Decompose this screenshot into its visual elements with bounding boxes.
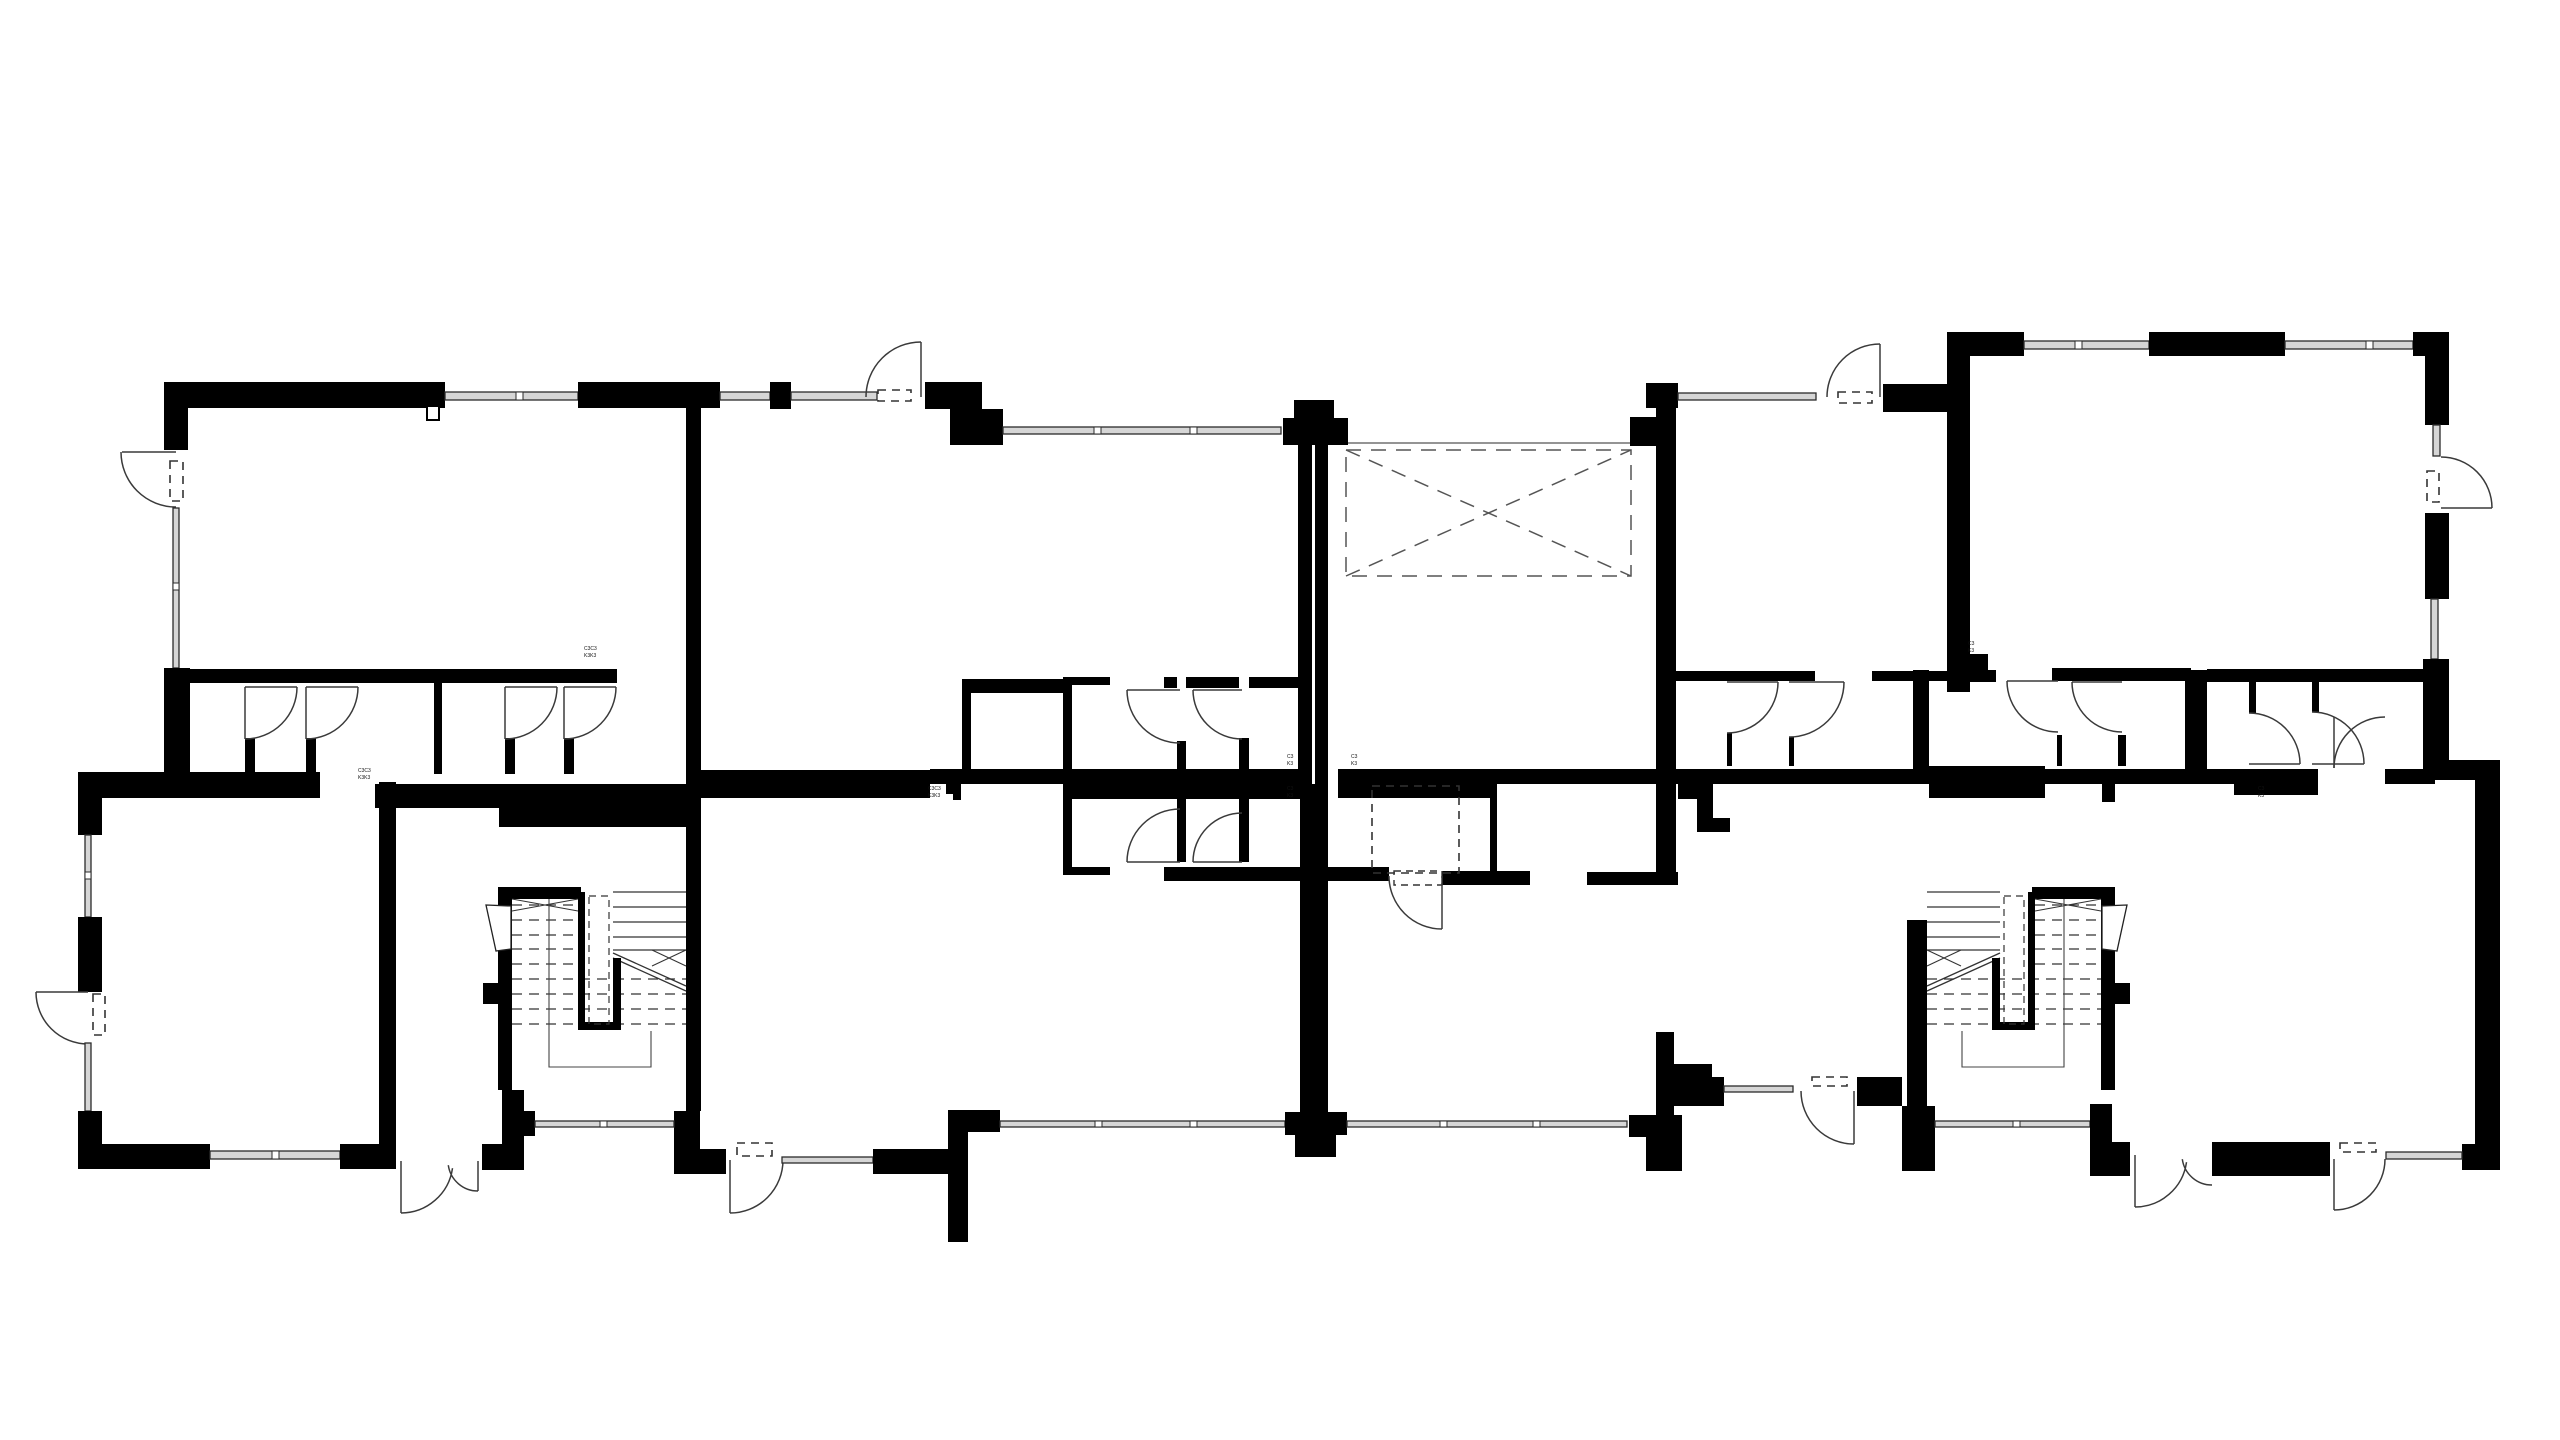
partition boxroom — [1490, 784, 1497, 873]
closet jamb 4 — [564, 738, 574, 774]
wall mid right 4 — [2385, 769, 2435, 784]
svg-text:C3: C3 — [2258, 786, 2265, 792]
wall TR right a — [2425, 332, 2449, 425]
wall lowleft corner — [78, 1111, 102, 1169]
band jamb 2 — [1789, 737, 1794, 766]
wall central solid — [1300, 784, 1328, 1112]
dashed box inner — [1394, 871, 1442, 885]
wc leaf 1 — [1127, 689, 1180, 691]
door leaf bottom-mid — [729, 1160, 731, 1213]
wall below X-room — [1587, 872, 1678, 885]
svg-text:C3: C3 — [1351, 754, 1358, 760]
stair right core E — [2028, 892, 2035, 1030]
wc door 4 — [1193, 813, 1242, 862]
band leaf 2 — [1789, 681, 1844, 683]
wall bottom-left 2 — [340, 1144, 396, 1169]
window bottom long-1 — [1000, 1121, 1285, 1127]
wall step 2102 — [2102, 782, 2115, 802]
dashed door topmid — [1838, 392, 1872, 403]
wall TR top 2 — [2149, 332, 2285, 356]
text mid gap — [358, 768, 371, 781]
wall mid band bottom — [1164, 867, 1389, 881]
band door 1 — [1727, 682, 1778, 733]
wall br L b — [2090, 1142, 2130, 1176]
text TR section — [1968, 641, 1975, 654]
wall TR top 3 — [2413, 332, 2449, 356]
window topright long — [1678, 393, 1816, 400]
wall band vert 2185 — [2185, 670, 2207, 782]
wall mid-center thin — [930, 769, 1063, 784]
stair left core W — [578, 892, 585, 1030]
wall vertical main-left — [686, 408, 701, 1111]
stub below mid wall — [946, 784, 961, 800]
text wc d — [1351, 786, 1364, 799]
wall arm bottom — [700, 1149, 726, 1174]
door arc top-mid — [866, 342, 921, 397]
wc leaf 4 — [1193, 861, 1242, 863]
window bottom right-2 — [2386, 1152, 2462, 1159]
wall block bottom-left of vert — [674, 1111, 700, 1174]
door leaf br-1 — [1853, 1091, 1855, 1144]
door arc br2 R — [2182, 1159, 2212, 1185]
band leaf 4 — [2072, 681, 2122, 683]
band jamb 6 — [2312, 682, 2319, 712]
wall br block1 — [1857, 1077, 1902, 1106]
door arc lowleft — [36, 992, 88, 1044]
wall br bar — [2212, 1142, 2330, 1176]
wall mid right 3 — [1678, 769, 2318, 784]
wall central cap wide — [1283, 418, 1348, 445]
wall jog right c — [1697, 818, 1730, 832]
door arc left-top — [121, 452, 176, 507]
wall jog right b — [1697, 798, 1713, 832]
closet door 3 — [505, 687, 557, 739]
wall T right foot a — [1629, 1115, 1656, 1137]
wall T right mid a — [1656, 1032, 1674, 1117]
window top-4 long — [1003, 427, 1281, 434]
wall annex top arm — [2449, 760, 2500, 780]
window bottom-left — [210, 1151, 340, 1159]
wall bottom-mid — [873, 1149, 948, 1174]
closet leaf 3 — [504, 687, 506, 739]
svg-text:C3C3: C3C3 — [584, 646, 597, 652]
wall top C — [925, 382, 982, 409]
stair left top wall — [512, 887, 581, 899]
svg-text:C3C3: C3C3 — [928, 786, 941, 792]
stair left break line — [613, 953, 686, 991]
wall mid right 1 — [1338, 769, 1490, 798]
wall C vert — [1063, 677, 1072, 875]
wall mid-left 2 — [375, 784, 686, 808]
wall mid-left 1 — [78, 772, 320, 798]
band leaf 7 — [2333, 717, 2335, 768]
wc door 1 — [1127, 690, 1180, 743]
wall TR left — [1947, 332, 1970, 692]
wall left corner — [164, 668, 190, 774]
wall TR right c — [2423, 659, 2449, 780]
stair left core dashed — [589, 896, 609, 1024]
wall central cross — [1285, 1112, 1347, 1135]
wall top-left B — [578, 382, 720, 408]
band leaf 1 — [1727, 681, 1778, 683]
wall top-left A — [164, 382, 445, 408]
text wc c — [1287, 786, 1294, 799]
svg-text:K3: K3 — [1287, 793, 1293, 799]
window TR right 1 — [2433, 425, 2440, 456]
wall bottom T arm — [968, 1110, 1000, 1132]
door leaf boxroom — [1441, 876, 1443, 929]
text wc b — [1351, 754, 1358, 767]
dashed door left — [170, 461, 183, 501]
closet jamb 2 — [306, 738, 316, 774]
wall lowleft left2 — [78, 917, 102, 992]
wall rightstair left — [1907, 920, 1927, 1106]
dashed box room — [1372, 786, 1459, 873]
wall band junction blk — [1970, 654, 1988, 670]
closet door 2 — [306, 687, 358, 739]
wall br L a — [2090, 1104, 2112, 1142]
wall mid-left 3 — [686, 770, 930, 798]
window TR 2 — [2285, 341, 2413, 349]
window bottom mid-left — [535, 1121, 674, 1127]
window top-2 — [720, 392, 770, 400]
line top of X room — [1348, 442, 1646, 444]
band door 5 — [2249, 713, 2300, 764]
wall entrance corner — [505, 1111, 535, 1136]
stair right top wall — [2032, 887, 2101, 899]
wall central strip W — [1298, 445, 1312, 784]
svg-text:C3: C3 — [1287, 754, 1294, 760]
wall central strip E — [1315, 445, 1328, 784]
wall band top r3 — [2052, 668, 2191, 681]
wall mid-center thick — [1063, 769, 1300, 799]
door arc TR right — [2441, 457, 2492, 508]
svg-text:K3K3: K3K3 — [584, 653, 596, 659]
stair right X left — [1927, 950, 1961, 966]
wall top C step — [950, 409, 1003, 445]
closet jamb 1 — [245, 738, 255, 774]
dashed door br-3 — [2340, 1143, 2376, 1152]
wall bottom-left 1 — [78, 1144, 210, 1169]
window bottom long-2 — [1347, 1121, 1627, 1127]
band jamb 5 — [2249, 682, 2256, 713]
wall jog right a — [1678, 784, 1713, 799]
closet door 4 — [564, 687, 616, 739]
door arc entrance R — [448, 1165, 478, 1191]
door leaf entrance L — [400, 1161, 402, 1213]
dashed door br-1 — [1812, 1077, 1847, 1086]
wall X-room shaft — [1656, 408, 1676, 873]
svg-text:C3: C3 — [1968, 641, 1975, 647]
wall annex foot — [2462, 1144, 2500, 1170]
stair left X right — [652, 950, 686, 966]
wall stairroom left — [379, 782, 396, 1144]
wall entrance right block — [482, 1144, 524, 1170]
stair left arrow — [486, 905, 511, 951]
door arc topmid — [1827, 344, 1880, 397]
wc jamb 1 — [1177, 741, 1186, 862]
band jamb 4 — [2118, 735, 2126, 766]
wall mid right thick — [1929, 766, 2045, 798]
stair left mid block — [483, 983, 500, 1004]
wall T right foot b — [1646, 1115, 1682, 1171]
svg-text:K3K3: K3K3 — [358, 775, 370, 781]
window bottom right-1 — [1935, 1121, 2090, 1127]
wall bottom T vert — [948, 1110, 968, 1242]
wall mid right 2 — [1490, 769, 1678, 784]
door arc bottom-mid — [730, 1160, 783, 1213]
window lowleft-2 — [85, 1043, 91, 1111]
window left tall — [173, 508, 179, 668]
stair left outline — [549, 899, 651, 1067]
window top-1 — [445, 392, 578, 400]
stair right room wall — [2101, 887, 2115, 1090]
partition 962 — [962, 679, 971, 774]
dashed X box — [1346, 450, 1631, 576]
band door 6 — [2312, 712, 2364, 764]
door arc entrance L — [401, 1168, 453, 1213]
svg-text:K3: K3 — [1287, 761, 1293, 767]
door arc br-1 — [1801, 1091, 1854, 1144]
wc door 2 — [1193, 690, 1242, 739]
wall band top r1 — [1674, 671, 1815, 681]
dashed door lowleft — [93, 994, 105, 1035]
wall band bottom left arm — [1063, 867, 1110, 875]
wall mid stair top — [499, 808, 686, 827]
closet leaf 1 — [244, 687, 246, 739]
wall br block2 — [1902, 1106, 1935, 1171]
wall band top r4 — [2207, 669, 2423, 682]
door leaf lowleft — [36, 991, 88, 993]
door arc boxroom — [1389, 876, 1442, 929]
band jamb 3 — [2057, 735, 2062, 766]
stair right mid block — [2113, 983, 2130, 1004]
wc leaf 2 — [1193, 689, 1242, 691]
wc leaf 3 — [1127, 861, 1180, 863]
wall lowleft left1 — [78, 772, 102, 835]
partition closet mid — [434, 669, 442, 774]
door leaf br2 L — [2134, 1155, 2136, 1207]
wc door 3 — [1127, 809, 1180, 862]
window top-3 — [791, 392, 877, 400]
wall X-room cap — [1646, 383, 1678, 408]
wall annex right — [2475, 780, 2500, 1144]
notch detail — [427, 406, 439, 420]
closet jamb 3 — [505, 738, 515, 774]
wall central foot — [1295, 1135, 1336, 1157]
wall entrance vert — [502, 1090, 524, 1144]
band door 2 — [1789, 682, 1844, 737]
band door 4 — [2072, 682, 2122, 732]
stair right X top — [2035, 899, 2101, 911]
window TR 1 — [2024, 341, 2149, 349]
stair left core btm — [578, 1022, 621, 1030]
stair left core E — [613, 958, 621, 1030]
band door 7 — [2334, 717, 2385, 768]
text right stub — [2258, 786, 2265, 799]
stair right treads — [1927, 892, 2101, 1024]
wall chunk 2234 — [2234, 782, 2318, 795]
door leaf left-top — [122, 451, 176, 453]
wall band junction — [1951, 670, 1996, 682]
wall TR right b — [2425, 513, 2449, 599]
wall corridor top4 — [442, 669, 617, 683]
closet door 1 — [245, 687, 297, 739]
stair right core W — [1992, 958, 2000, 1030]
wall wc top 2 — [1186, 677, 1239, 688]
svg-text:K3: K3 — [1351, 761, 1357, 767]
stair left X top — [512, 899, 578, 911]
wall mid band bottom2 — [1442, 871, 1530, 885]
window sill right — [1724, 1086, 1793, 1092]
dashed door TR — [2427, 471, 2439, 502]
wall left upper — [164, 382, 188, 450]
svg-text:K3: K3 — [1968, 648, 1974, 654]
door leaf br-3 — [2333, 1159, 2335, 1210]
post top — [770, 382, 791, 409]
wall corridor top — [188, 669, 435, 683]
wall wc top 1 — [1164, 677, 1177, 688]
band door 3 — [2007, 681, 2058, 732]
wall wc top 3 — [1249, 677, 1300, 688]
wall C top arm — [1063, 677, 1110, 685]
wall band top r2 — [1872, 671, 1951, 681]
stub below right wall — [2291, 784, 2304, 793]
dashed door bottom-mid — [737, 1143, 772, 1156]
text corridor — [584, 646, 597, 659]
stair left room wall — [498, 887, 512, 1090]
wc jamb 2 — [1239, 738, 1249, 862]
wall X-room step — [1630, 417, 1656, 446]
band jamb 1 — [1727, 733, 1732, 766]
window TR right 2 — [2431, 599, 2438, 659]
stair left treads — [512, 892, 686, 1024]
wall TR mid — [2207, 669, 2423, 682]
door arc br-3 — [2334, 1159, 2385, 1210]
band leaf 3 — [2007, 680, 2058, 682]
stair right core btm — [1992, 1022, 2035, 1030]
door leaf TR right — [2441, 507, 2492, 509]
text wc a — [1287, 754, 1294, 767]
wall TR top 1 — [1947, 332, 2024, 356]
stair right break line — [1927, 953, 2000, 991]
dashed opening top — [878, 390, 911, 401]
wall band vert 1913 — [1913, 670, 1929, 781]
svg-text:C3: C3 — [1287, 786, 1294, 792]
stair right arrow — [2102, 905, 2127, 951]
svg-text:K3: K3 — [2258, 793, 2264, 799]
svg-text:C3C3: C3C3 — [358, 768, 371, 774]
window bottom-mid — [782, 1157, 873, 1163]
stair right core dashed — [2004, 896, 2024, 1024]
text stub — [928, 786, 941, 799]
closet leaf 2 — [305, 687, 307, 739]
wall T right arm — [1674, 1064, 1712, 1078]
svg-text:K3K3: K3K3 — [928, 793, 940, 799]
door arc br2 L — [2135, 1162, 2187, 1207]
wall T right arm2 — [1672, 1077, 1724, 1106]
closet leaf 4 — [563, 687, 565, 739]
door leaf entrance R — [477, 1161, 479, 1191]
window lowleft-1 — [85, 835, 91, 917]
wall top mid piece — [1883, 384, 1947, 412]
wall 971-1063 — [971, 679, 1063, 693]
stair right outline — [1962, 899, 2064, 1067]
wall central cap — [1294, 400, 1334, 418]
